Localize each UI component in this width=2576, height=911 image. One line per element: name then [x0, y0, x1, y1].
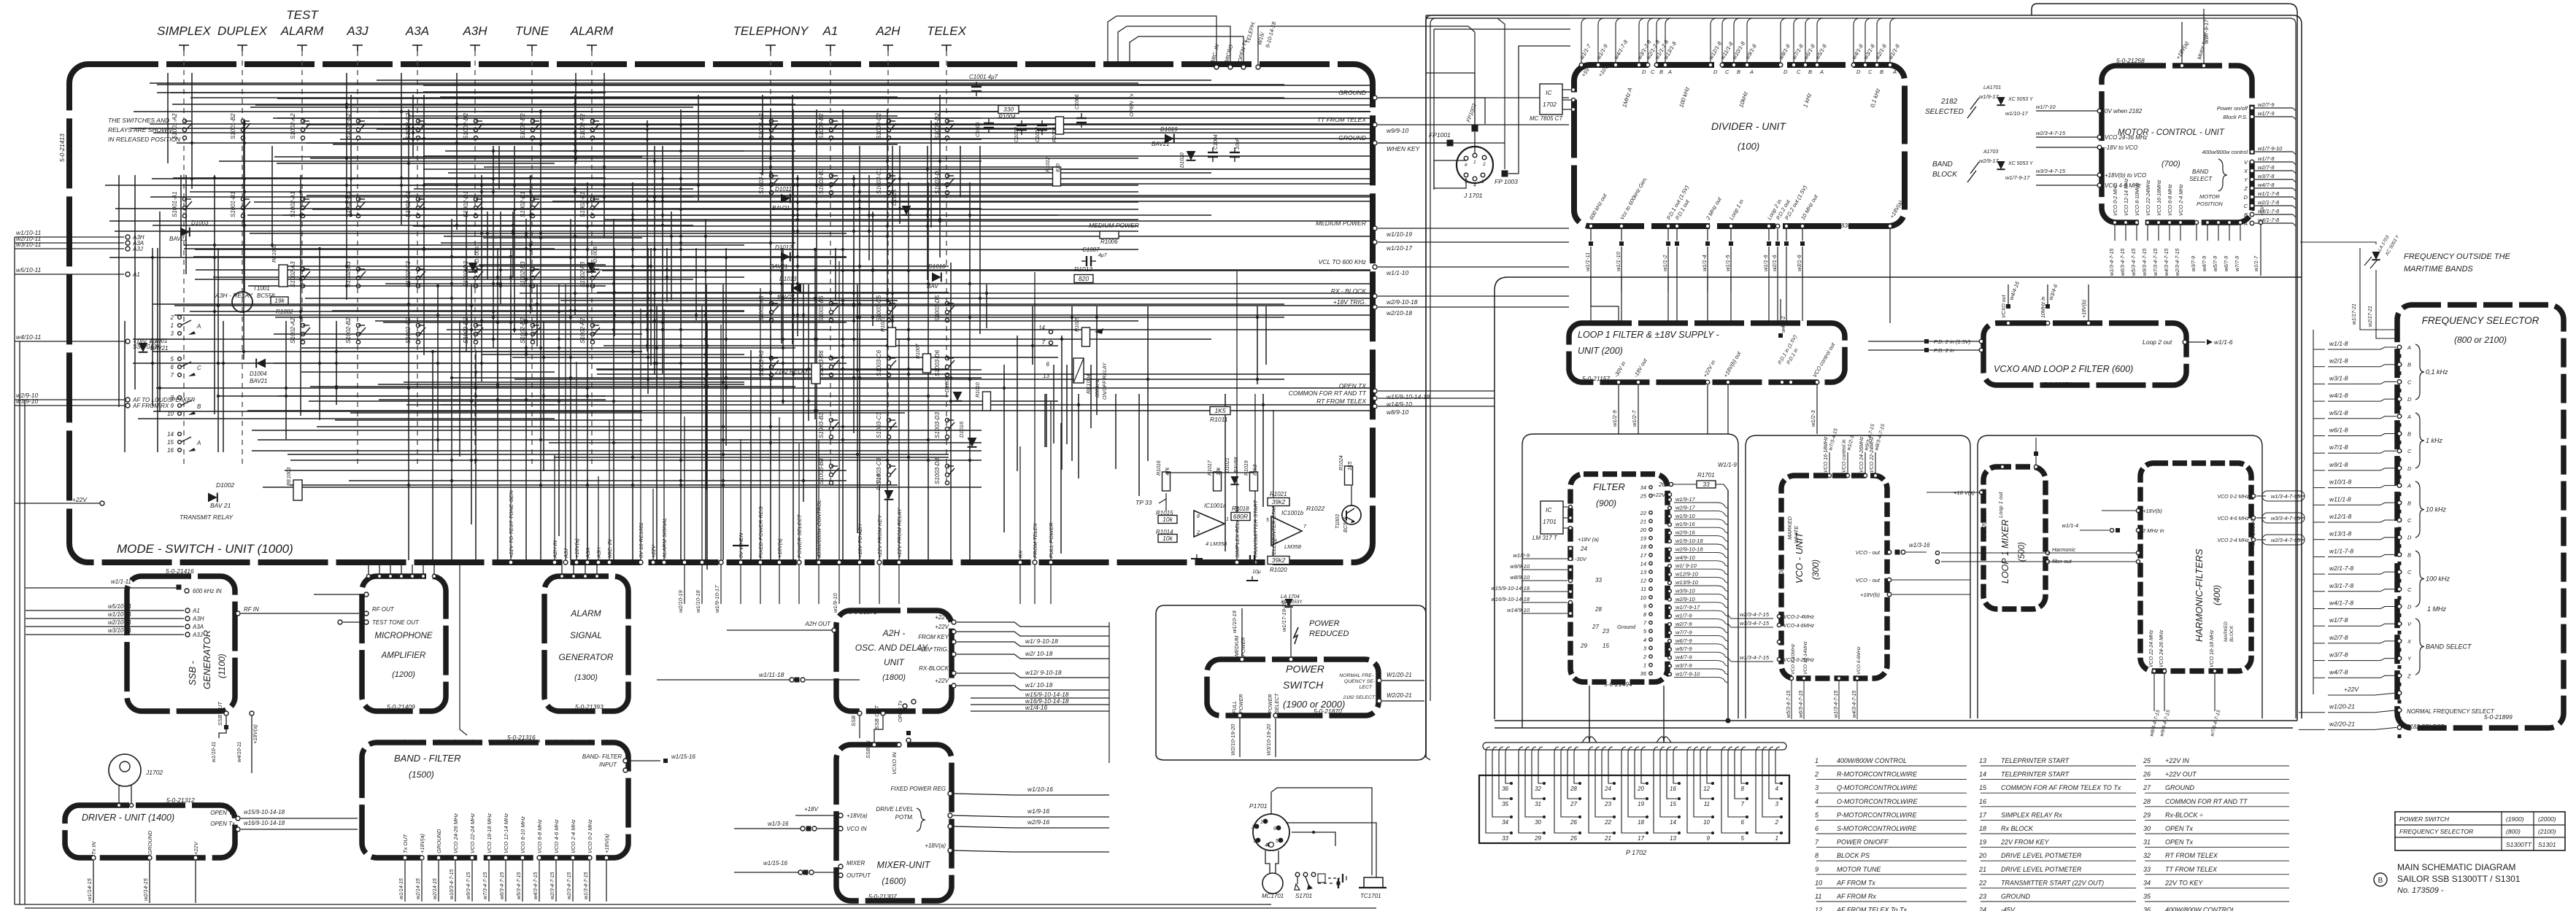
- regulator IC1702: [1540, 84, 1562, 115]
- node filter left w16/9-10-14-18: [1568, 600, 1572, 604]
- wire to FP1003: [1426, 18, 1505, 169]
- wire: [423, 85, 1370, 86]
- connector P1702: [1479, 775, 1789, 843]
- node P1702 pin 21: [1613, 831, 1616, 834]
- brace 100 kHz: [2415, 551, 2424, 607]
- node motor position pin: [2238, 220, 2242, 224]
- node +22V FROM KEY bottom pin: [877, 560, 882, 565]
- wire: [301, 351, 642, 352]
- wire: [1262, 394, 1264, 507]
- svg-text:5-0-21316: 5-0-21316: [507, 734, 536, 741]
- wire: [593, 168, 1370, 170]
- wire: [1071, 306, 1073, 461]
- svg-text:D1013: D1013: [779, 276, 797, 282]
- svg-text:B: B: [2407, 431, 2411, 438]
- svg-text:w2/9-10-18: w2/9-10-18: [1675, 546, 1703, 552]
- wire: [939, 95, 941, 257]
- svg-text:VCO 24-26MHz: VCO 24-26MHz: [1859, 436, 1864, 473]
- svg-text:LM358: LM358: [1284, 543, 1302, 550]
- svg-text:+18V(a): +18V(a): [925, 842, 946, 849]
- svg-text:w3/3-4-7-15: w3/3-4-7-15: [2271, 515, 2301, 522]
- wire: [520, 292, 1370, 294]
- block VCO-UNIT (300): [1781, 476, 1887, 678]
- node w1/9-10-17 bottom pin: [719, 560, 723, 565]
- svg-text:31: 31: [1535, 801, 1541, 807]
- resistor R1018 680R: [1231, 513, 1250, 521]
- svg-text:(1300): (1300): [574, 673, 598, 682]
- svg-text:0,1 kHz: 0,1 kHz: [2426, 368, 2448, 376]
- wire: [2293, 162, 2296, 165]
- wire: [333, 144, 898, 145]
- svg-text:BAV21: BAV21: [169, 236, 187, 242]
- wire: [247, 214, 1211, 216]
- svg-text:680R: 680R: [1233, 513, 1248, 520]
- svg-text:w7/1-8: w7/1-8: [2329, 443, 2348, 451]
- svg-text:BAND - FILTER: BAND - FILTER: [394, 753, 461, 764]
- node P1702 pin 5: [1746, 831, 1748, 834]
- wire: [157, 92, 606, 93]
- wire: [602, 270, 1370, 271]
- key jack: [1318, 883, 1334, 884]
- wire: [277, 98, 1370, 99]
- node MIC. IN top border pin: [1214, 65, 1219, 69]
- svg-text:VCO 24-26 MHz: VCO 24-26 MHz: [452, 813, 459, 853]
- svg-text:w4/10-11: w4/10-11: [237, 742, 242, 762]
- svg-text:B: B: [2244, 212, 2248, 218]
- svg-text:w1/3-4-7-15: w1/3-4-7-15: [1740, 654, 1770, 661]
- svg-text:w2/3-4-7-15: w2/3-4-7-15: [2271, 537, 2301, 543]
- svg-text:S1003-B2: S1003-B2: [818, 113, 825, 139]
- svg-text:+18V TRIG.: +18V TRIG.: [918, 646, 949, 653]
- svg-text:(100): (100): [1738, 141, 1759, 152]
- node motor bottom w2/3-4-7-15: [2178, 220, 2182, 224]
- node divider top w1/1-7-8: [1654, 63, 1659, 67]
- wire: [1769, 753, 1781, 799]
- wire: [857, 284, 858, 533]
- wire: [1053, 365, 1054, 443]
- svg-text:Block P.S.: Block P.S.: [2223, 114, 2248, 120]
- wire: [493, 146, 494, 348]
- wire: [1741, 753, 1747, 783]
- node filter right w2/9-16: [1668, 531, 1672, 535]
- node harm bottom VCO 16-18 MHz: [2213, 669, 2216, 672]
- wire: [512, 212, 514, 278]
- svg-text:DRIVE LEVEL POTMETER: DRIVE LEVEL POTMETER: [2001, 852, 2082, 859]
- node P1702 pin 2: [1780, 815, 1783, 818]
- svg-text:OPEN Tx: OPEN Tx: [2165, 825, 2194, 832]
- wire: [346, 73, 347, 300]
- node VCXO out: [2006, 321, 2010, 325]
- wire drop: [720, 325, 722, 560]
- svg-text:S1002-F2: S1002-F2: [579, 113, 586, 139]
- wire: [278, 395, 606, 397]
- svg-text:C: C: [2407, 379, 2412, 385]
- svg-text:D1012: D1012: [775, 244, 793, 251]
- wire: [781, 248, 782, 344]
- node filter right w5/7-9: [1668, 648, 1672, 651]
- svg-text:A3A: A3A: [405, 24, 429, 38]
- svg-text:30: 30: [2143, 825, 2151, 832]
- svg-text:w9/1-8: w9/1-8: [2329, 461, 2348, 468]
- svg-text:7: 7: [1741, 801, 1745, 807]
- node RX bottom pin: [1018, 560, 1022, 565]
- node +18V(a) band-filter pin: [604, 856, 609, 860]
- node P1702 pin 1: [1780, 831, 1783, 834]
- wire: [554, 457, 949, 458]
- svg-text:DRIVE LEVEL: DRIVE LEVEL: [876, 806, 914, 813]
- node Tx OUT band-filter pin: [403, 856, 407, 860]
- wire: [797, 175, 798, 336]
- svg-text:39k2: 39k2: [1272, 557, 1286, 564]
- wire: [153, 303, 1284, 305]
- svg-text:22V FROM KEY: 22V FROM KEY: [2000, 839, 2050, 846]
- svg-text:w1/11-18: w1/11-18: [759, 671, 784, 678]
- wire: [115, 208, 982, 209]
- svg-text:w1/10-18: w1/10-18: [695, 589, 701, 613]
- svg-text:400W/800W CONTROL: 400W/800W CONTROL: [1837, 757, 1907, 764]
- svg-text:+18V(a): +18V(a): [847, 813, 868, 819]
- node loop200 +22V in: [1705, 380, 1710, 384]
- svg-text:VCO 2-4 MHz: VCO 2-4 MHz: [2217, 538, 2249, 543]
- svg-text:A1703: A1703: [1983, 150, 1998, 155]
- svg-text:(700): (700): [2162, 160, 2180, 168]
- svg-text:X: X: [2407, 638, 2412, 645]
- node GROUND: [147, 856, 152, 860]
- wire: [150, 123, 1370, 125]
- svg-text:SSB IN: SSB IN: [850, 708, 857, 726]
- svg-text:+18V(b) to VCO: +18V(b) to VCO: [2105, 172, 2146, 179]
- node filter right w1/ 9-10: [1668, 565, 1672, 568]
- svg-text:w2/1-8: w2/1-8: [2329, 357, 2348, 365]
- wire: [131, 128, 1058, 129]
- wire: [1700, 753, 1713, 799]
- node vco left VCO-0-2MHz: [1777, 657, 1781, 661]
- svg-text:R1022: R1022: [1306, 505, 1324, 512]
- svg-text:LA1701: LA1701: [1983, 85, 2001, 90]
- svg-text:A: A: [196, 440, 201, 446]
- wire: [159, 212, 161, 412]
- svg-text:7: 7: [1042, 339, 1046, 346]
- svg-text:VCO 2-4 MHz: VCO 2-4 MHz: [2179, 184, 2184, 216]
- svg-text:-45V: -45V: [2001, 907, 2016, 911]
- node divider bottom P.D.2 out: [1775, 224, 1780, 228]
- svg-text:RX-BLOCK: RX-BLOCK: [919, 665, 949, 672]
- svg-text:Loop 1 out: Loop 1 out: [1997, 492, 2004, 518]
- svg-text:1 MHz: 1 MHz: [2427, 605, 2447, 613]
- svg-text:10μ: 10μ: [1252, 570, 1261, 575]
- svg-text:10: 10: [1703, 819, 1710, 826]
- svg-text:5: 5: [1276, 839, 1279, 844]
- svg-text:w2/7-8: w2/7-8: [2329, 634, 2348, 641]
- wire: [1257, 306, 1258, 384]
- microphone MC1701: [1262, 873, 1283, 893]
- wire mic to FP1002: [1258, 26, 1475, 124]
- svg-text:GENERATOR: GENERATOR: [201, 630, 212, 689]
- svg-text:820: 820: [1056, 163, 1061, 172]
- wire: [193, 256, 847, 257]
- svg-text:+18V(a): +18V(a): [603, 834, 610, 853]
- svg-text:w1/ 10-18: w1/ 10-18: [1025, 681, 1053, 689]
- svg-text:BLOCK PS: BLOCK PS: [1837, 852, 1870, 859]
- wire filter flags merge vertical: [1727, 490, 1729, 721]
- svg-text:X: X: [2243, 168, 2248, 174]
- svg-text:Harmonic: Harmonic: [2052, 546, 2075, 553]
- wire: [105, 185, 847, 186]
- svg-text:8: 8: [1815, 852, 1819, 859]
- svg-text:INPUT: INPUT: [599, 761, 617, 768]
- wire: [300, 175, 301, 416]
- svg-text:S-MOTORCONTROLWIRE: S-MOTORCONTROLWIRE: [1837, 825, 1917, 832]
- wire mic top: [379, 565, 380, 574]
- svg-text:XC 5053 Y: XC 5053 Y: [2008, 97, 2034, 102]
- diode D1019 BAV21: [1165, 134, 1174, 144]
- node POWER SELECT: [1273, 713, 1278, 718]
- wire drop: [898, 338, 900, 560]
- wire: [1066, 365, 1068, 444]
- wire: [603, 345, 1058, 346]
- diode D1016 BAV21: [968, 438, 977, 447]
- wire: [401, 73, 402, 225]
- svg-text:w3/7-9: w3/7-9: [2191, 256, 2197, 271]
- svg-text:A2H: A2H: [875, 24, 901, 38]
- junction dots: [542, 356, 545, 359]
- node P1702 pin 32: [1543, 782, 1546, 785]
- capacitor C1008: [1245, 555, 1260, 565]
- svg-text:+22V: +22V: [935, 624, 949, 630]
- wire: [1554, 753, 1580, 833]
- svg-text:15: 15: [1603, 643, 1609, 649]
- svg-text:5-0-21494: 5-0-21494: [1604, 681, 1632, 688]
- svg-text:TT FROM TELEX: TT FROM TELEX: [2165, 866, 2218, 873]
- node divider top w2/1-8: [1875, 63, 1879, 67]
- wire: [803, 284, 804, 502]
- svg-text:AF FROM Rx: AF FROM Rx: [1836, 893, 1876, 900]
- wire: [706, 284, 707, 489]
- svg-text:w1/10-19: w1/10-19: [1387, 230, 1412, 238]
- svg-text:5-0-21416: 5-0-21416: [166, 567, 194, 575]
- svg-text:36: 36: [1640, 670, 1647, 677]
- svg-text:20: 20: [1637, 786, 1644, 792]
- svg-text:D1001: D1001: [150, 338, 168, 344]
- svg-text:4μ7: 4μ7: [1098, 253, 1108, 258]
- svg-text:w9/3-4-7-15: w9/3-4-7-15: [2143, 249, 2148, 276]
- wire drop to power cabinet: [838, 565, 840, 604]
- wire: [456, 73, 458, 230]
- svg-text:w3/3-4-7-15: w3/3-4-7-15: [1740, 620, 1770, 627]
- svg-text:w1/10-19: w1/10-19: [1231, 610, 1238, 633]
- wire: [247, 410, 1370, 411]
- node filter right w1/7-9: [1668, 614, 1672, 618]
- node P1702 pin 10: [1711, 815, 1714, 818]
- wire: [412, 95, 414, 157]
- svg-text:R1005: R1005: [1052, 127, 1057, 142]
- wire riser x1954: [1426, 15, 1430, 760]
- svg-text:SSB OUT: SSB OUT: [217, 701, 223, 726]
- svg-text:TELEPHONY: TELEPHONY: [733, 24, 810, 38]
- svg-text:A: A: [196, 323, 201, 330]
- wire: [309, 400, 1058, 402]
- node A2H IN bottom pin: [552, 560, 557, 565]
- wire: [336, 321, 337, 405]
- svg-text:Rx-BLOCK ÷: Rx-BLOCK ÷: [2165, 811, 2203, 818]
- wire drop: [587, 477, 588, 560]
- wire: [437, 284, 439, 452]
- svg-text:w6/1-8: w6/1-8: [2329, 427, 2348, 434]
- wire: [1003, 365, 1005, 532]
- wire: [2293, 223, 2296, 226]
- wire: [1628, 753, 1647, 817]
- svg-text:w1/3-16: w1/3-16: [1909, 542, 1930, 548]
- svg-text:SELECT: SELECT: [2189, 176, 2213, 182]
- svg-text:R1024: R1024: [1339, 455, 1344, 470]
- svg-text:AMPLIFIER: AMPLIFIER: [381, 651, 426, 660]
- svg-text:D1003: D1003: [191, 220, 209, 226]
- wire: [1046, 394, 1047, 447]
- node filter right w12/9-10: [1668, 573, 1672, 576]
- block LOOP1 FILTER UNIT (200): [1569, 323, 1845, 382]
- svg-text:D: D: [2407, 604, 2412, 610]
- svg-text:S1001-B2: S1001-B2: [230, 113, 236, 139]
- wire: [603, 73, 605, 238]
- svg-text:C1003: C1003: [1014, 127, 1019, 142]
- svg-text:32: 32: [1535, 786, 1541, 792]
- svg-text:w8/9-10: w8/9-10: [1510, 574, 1530, 581]
- svg-text:34: 34: [1502, 819, 1508, 826]
- wire: [274, 333, 642, 335]
- svg-text:VCO-4-6MHz: VCO-4-6MHz: [1783, 624, 1815, 629]
- node filter right w1/9-16: [1668, 523, 1672, 527]
- block DIVIDER-UNIT (100): [1574, 65, 1905, 226]
- svg-text:3: 3: [1253, 839, 1256, 844]
- wire: [275, 317, 1284, 318]
- svg-text:w1/3-16: w1/3-16: [768, 821, 789, 827]
- wire P1702 risers to filter: [1589, 686, 1590, 743]
- svg-text:A3J: A3J: [192, 632, 204, 638]
- node vco left VCO-4-6MHz: [1777, 623, 1781, 627]
- svg-text:w1/1-11: w1/1-11: [111, 578, 131, 585]
- svg-text:(1800): (1800): [882, 673, 906, 682]
- svg-text:IC: IC: [1546, 89, 1552, 96]
- svg-text:FIXED POWER REG: FIXED POWER REG: [890, 786, 946, 792]
- svg-text:THE SWITCHES AND: THE SWITCHES AND: [108, 117, 169, 124]
- svg-text:w1/9-16: w1/9-16: [1027, 807, 1050, 815]
- svg-text:TEST: TEST: [286, 8, 319, 22]
- op-amp IC1001b LM358: [1271, 516, 1302, 546]
- svg-text:ALARM: ALARM: [280, 24, 324, 38]
- svg-text:BLOCK: BLOCK: [2229, 625, 2234, 642]
- svg-text:No. 173509 -: No. 173509 -: [2397, 886, 2444, 895]
- node divider top w4/1-7-8: [1613, 63, 1618, 67]
- node w1/10-18 bottom pin: [700, 560, 704, 565]
- svg-text:S1002-E2: S1002-E2: [520, 113, 526, 139]
- wire: [1525, 753, 1544, 817]
- wire drop to power cabinet: [760, 565, 761, 604]
- node harm 2MHz in: [2136, 528, 2140, 532]
- wire: [191, 73, 193, 189]
- svg-text:TP 33: TP 33: [1135, 499, 1152, 506]
- svg-text:22: 22: [1640, 510, 1647, 516]
- svg-text:w7/3-4-7-15: w7/3-4-7-15: [2153, 249, 2159, 276]
- svg-text:VCO 18-18 MHz: VCO 18-18 MHz: [486, 813, 493, 853]
- wire: [1608, 753, 1614, 783]
- svg-text:11: 11: [1815, 893, 1821, 900]
- wire drop: [640, 309, 641, 560]
- wire drop: [1050, 400, 1052, 560]
- block LOOP 1 MIXER (500): [1983, 467, 2045, 609]
- svg-text:D1021: D1021: [1225, 457, 1230, 473]
- svg-text:13: 13: [1670, 835, 1676, 842]
- svg-text:BAV21: BAV21: [777, 294, 795, 301]
- svg-text:S1003-B3: S1003-B3: [818, 412, 825, 438]
- wire: [698, 95, 699, 201]
- node SSB IN mixer: [872, 743, 876, 747]
- node Tx IN: [91, 856, 96, 860]
- svg-text:w2/20-21: w2/20-21: [2329, 720, 2355, 727]
- wire: [647, 248, 649, 394]
- node mixer right w2/9-16: [948, 824, 952, 829]
- svg-text:w6/3-4-7-15: w6/3-4-7-15: [2121, 249, 2126, 276]
- svg-text:4: 4: [1473, 183, 1476, 188]
- block MOTOR-CONTROL-UNIT (700): [2102, 66, 2252, 222]
- svg-text:B: B: [1808, 69, 1812, 75]
- wire: [134, 175, 136, 389]
- wire: [213, 276, 744, 278]
- wire: [596, 368, 949, 370]
- wire: [512, 357, 1058, 358]
- wire: [671, 212, 672, 300]
- node +18V TO A2H bottom pin: [857, 560, 862, 565]
- svg-text:(300): (300): [1810, 559, 1821, 580]
- svg-text:33: 33: [1595, 577, 1602, 584]
- svg-text:R1010: R1010: [976, 382, 981, 398]
- svg-text:24: 24: [1580, 546, 1587, 552]
- wire: [115, 230, 1138, 232]
- svg-text:14: 14: [1038, 325, 1045, 331]
- diode D1014 BAV21: [884, 490, 894, 500]
- node filter left w15/9-10-14-18: [1568, 589, 1572, 593]
- wire: [835, 248, 836, 301]
- svg-text:S1002-A3: S1002-A3: [290, 261, 296, 287]
- wire: [1265, 306, 1267, 365]
- svg-text:TRANSMIT RELAY: TRANSMIT RELAY: [180, 513, 234, 521]
- svg-text:w10/3-4-7-15: w10/3-4-7-15: [450, 869, 455, 899]
- node vco top VCO 22-24MHz: [1873, 473, 1877, 477]
- svg-text:w3/7-8: w3/7-8: [2329, 651, 2348, 659]
- wire: [1735, 753, 1747, 799]
- svg-text:W2/20-21: W2/20-21: [1387, 692, 1412, 699]
- svg-text:RE1003: RE1003: [287, 468, 292, 486]
- svg-text:D1002: D1002: [216, 481, 234, 489]
- svg-text:10k: 10k: [1162, 516, 1173, 523]
- svg-text:P 1702: P 1702: [1626, 849, 1646, 856]
- svg-text:-30V: -30V: [1575, 556, 1587, 562]
- wire drop: [859, 333, 860, 560]
- node filter left w9/9-10: [1568, 567, 1572, 571]
- wire: [335, 419, 642, 421]
- svg-text:S1300TT: S1300TT: [2506, 841, 2532, 848]
- wire: [525, 219, 527, 560]
- wire a2h aux: [971, 697, 1109, 699]
- svg-text:VCO-0-2MHz: VCO-0-2MHz: [1783, 658, 1815, 663]
- svg-text:C: C: [2407, 448, 2412, 454]
- svg-text:FP 1003: FP 1003: [1495, 178, 1518, 185]
- node VCO 12-14 MHz band-filter pin: [504, 856, 508, 860]
- svg-text:R1014: R1014: [1156, 529, 1173, 535]
- node TELEPRINTER START bottom pin: [1271, 560, 1276, 565]
- svg-text:BAND: BAND: [2192, 168, 2208, 175]
- svg-text:12: 12: [1703, 786, 1710, 792]
- svg-text:w3/10-11: w3/10-11: [108, 627, 131, 634]
